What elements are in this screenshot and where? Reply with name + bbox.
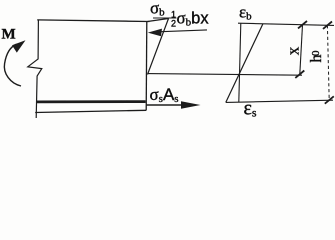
tension force arrow tail <box>147 104 183 106</box>
beam section right edge <box>145 21 148 110</box>
stress triangle diagonal <box>148 19 169 75</box>
dimension line h0 (dashed) <box>327 25 329 100</box>
dimension line x <box>300 25 303 74</box>
moment arc <box>4 44 21 86</box>
svg-text:2: 2 <box>171 18 176 28</box>
tick top of x dimension <box>298 21 307 28</box>
strain line <box>226 24 263 103</box>
neutral axis line <box>148 74 303 76</box>
strain diagram top line <box>238 23 334 25</box>
svg-text:σsAs: σsAs <box>150 85 179 105</box>
svg-text:σb: σb <box>150 0 165 19</box>
strain diagram vertical axis <box>239 23 241 102</box>
compression force arrowhead <box>148 29 162 37</box>
svg-text:εs: εs <box>244 98 257 120</box>
tick bottom of h0 dimension <box>325 96 334 103</box>
stress triangle top edge <box>148 19 169 22</box>
svg-text:M: M <box>2 27 16 43</box>
beam section left edge with break symbol <box>28 20 42 118</box>
moment arrowhead <box>12 40 26 52</box>
tick top of h0 dimension <box>323 22 332 29</box>
reinforcement bar As <box>37 100 146 103</box>
steel level line <box>226 100 333 102</box>
sigma_b underline and fraction bar <box>153 17 177 19</box>
tension force arrowhead <box>181 101 201 109</box>
tick bottom of x dimension <box>295 71 304 78</box>
svg-text:εb: εb <box>239 3 252 23</box>
compression force arrow tail <box>161 30 207 32</box>
beam section top edge <box>37 20 149 22</box>
svg-text:σbbx: σbbx <box>177 9 210 29</box>
svg-text:h0: h0 <box>308 50 325 63</box>
beam section bottom edge <box>35 110 146 112</box>
svg-text:x: x <box>284 46 303 55</box>
